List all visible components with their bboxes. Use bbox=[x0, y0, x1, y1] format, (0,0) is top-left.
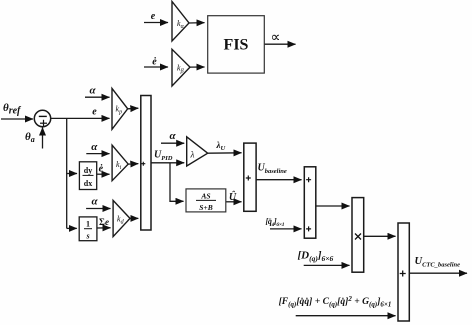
svg-text:FIS: FIS bbox=[224, 37, 249, 54]
wire U_PID branch down to AS block bbox=[170, 163, 184, 202]
wire dynamics formula to sum bar E bbox=[296, 315, 396, 317]
svg-text:AS: AS bbox=[200, 191, 210, 200]
wire dy/dx to k_i bbox=[97, 173, 110, 175]
block FIS U1 bbox=[208, 16, 265, 73]
summing junction bbox=[34, 110, 50, 126]
gain k_p bbox=[112, 88, 128, 129]
wire qdd_d input to sum bar C bbox=[270, 228, 302, 230]
wire lambda_U to sum bar B bbox=[208, 152, 242, 154]
svg-text:θref: θref bbox=[3, 102, 22, 117]
svg-text:[q̈d]6×1: [q̈d]6×1 bbox=[266, 217, 285, 228]
svg-text:θa: θa bbox=[25, 131, 35, 144]
svg-text:[F(q)[q̇q̇] + C(q)[q̇]2 + G(q): [F(q)[q̇q̇] + C(q)[q̇]2 + G(q)]6×1 bbox=[279, 295, 392, 309]
label alpha (k_d input) bbox=[92, 195, 99, 207]
svg-text:ė: ė bbox=[152, 57, 157, 68]
svg-text:1: 1 bbox=[86, 220, 90, 229]
gain k_i bbox=[112, 145, 128, 181]
wire vertical e branch bbox=[66, 118, 68, 228]
wire edot input top bbox=[144, 66, 168, 68]
wire 1/s to k_d bbox=[97, 227, 111, 229]
gain k_d bbox=[113, 200, 130, 236]
svg-text:Ubaseline: Ubaseline bbox=[258, 163, 287, 176]
svg-text:dy: dy bbox=[84, 166, 92, 175]
wire sum bar C to multiplier bbox=[316, 205, 350, 207]
wire multiplier to sum bar E bbox=[364, 235, 396, 237]
svg-text:ė: ė bbox=[99, 163, 104, 174]
label dynamics formula bbox=[279, 295, 392, 309]
wire U_baseline to sum bar C bbox=[256, 179, 301, 181]
svg-text:λ: λ bbox=[190, 150, 195, 160]
block dy/dx bbox=[79, 162, 96, 190]
label D matrix 6x6 bbox=[298, 250, 334, 264]
wire branch to 1/s bbox=[67, 227, 77, 229]
svg-text:dx: dx bbox=[84, 179, 92, 188]
svg-text:s: s bbox=[85, 232, 89, 241]
wire AS block to sum bar B bbox=[226, 201, 242, 203]
wire k_d to sum bar bbox=[130, 217, 138, 219]
label edot (top) bbox=[152, 57, 157, 68]
label lambda_U bbox=[216, 140, 226, 152]
wire k_beta to FIS bbox=[190, 66, 205, 68]
svg-text:α: α bbox=[89, 85, 96, 97]
gain k_alpha bbox=[172, 2, 189, 42]
label U-hat bbox=[229, 190, 237, 203]
label qdd_d 6x1 bbox=[266, 217, 285, 228]
label U_baseline bbox=[258, 163, 287, 176]
label U_PID bbox=[154, 150, 173, 163]
svg-text:Σe: Σe bbox=[99, 217, 109, 227]
label e (top) bbox=[151, 11, 156, 22]
sum bar E (CTC summer) bbox=[398, 223, 409, 321]
wire U_PID to lambda bbox=[151, 162, 184, 164]
wire alpha to k_i bbox=[86, 153, 109, 155]
svg-text:S+B: S+B bbox=[199, 203, 212, 212]
svg-text:λU: λU bbox=[216, 140, 226, 152]
sum bar C bbox=[304, 167, 316, 238]
block 1/s integrator bbox=[79, 217, 97, 241]
wire k_p to sum bar bbox=[128, 107, 139, 110]
wire k_alpha to FIS bbox=[189, 22, 205, 24]
wire alpha to k_d bbox=[86, 208, 110, 210]
wire e input top bbox=[144, 22, 168, 24]
wire alpha to k_p bbox=[85, 96, 110, 98]
svg-text:α: α bbox=[91, 141, 98, 153]
wire e from summer to k_p bbox=[51, 117, 110, 119]
wire theta_a input bbox=[42, 128, 44, 149]
label theta_ref bbox=[3, 102, 22, 117]
svg-text:Û: Û bbox=[229, 190, 237, 203]
gain k_beta bbox=[172, 49, 190, 86]
svg-text:α: α bbox=[92, 195, 99, 207]
block AS/(S+B) filter bbox=[186, 189, 226, 212]
svg-text:∝: ∝ bbox=[270, 31, 280, 46]
wire alpha to lambda bbox=[161, 142, 184, 144]
label edot (dy/dx output) bbox=[99, 163, 104, 174]
svg-text:[D(q)]6×6: [D(q)]6×6 bbox=[298, 250, 334, 264]
wire theta_ref input bbox=[1, 118, 33, 120]
svg-text:e: e bbox=[92, 107, 97, 118]
label theta_a bbox=[25, 131, 35, 144]
wire U_CTC_baseline output bbox=[409, 272, 467, 274]
svg-text:UPID: UPID bbox=[154, 150, 173, 163]
gain lambda bbox=[187, 137, 208, 166]
label U_CTC_baseline bbox=[415, 256, 461, 269]
svg-text:α: α bbox=[169, 130, 176, 142]
label alpha (lambda input) bbox=[169, 130, 176, 142]
wire branch to dy/dx bbox=[67, 173, 77, 175]
multiplier bar bbox=[352, 198, 364, 273]
sum bar B (baseline summer) bbox=[244, 143, 256, 211]
wire k_i to sum bar bbox=[128, 163, 138, 166]
label e (error signal) bbox=[92, 107, 97, 118]
label alpha (k_p input) bbox=[89, 85, 96, 97]
svg-text:e: e bbox=[151, 11, 156, 22]
wire FIS output alpha bbox=[264, 43, 295, 45]
label sigma-e bbox=[99, 217, 109, 227]
label alpha output of FIS bbox=[270, 31, 280, 46]
svg-text:UCTC_baseline: UCTC_baseline bbox=[415, 256, 461, 269]
label alpha (k_i input) bbox=[91, 141, 98, 153]
wire D matrix input to multiplier bbox=[304, 264, 350, 266]
sum bar A (PID summer) bbox=[141, 96, 151, 231]
